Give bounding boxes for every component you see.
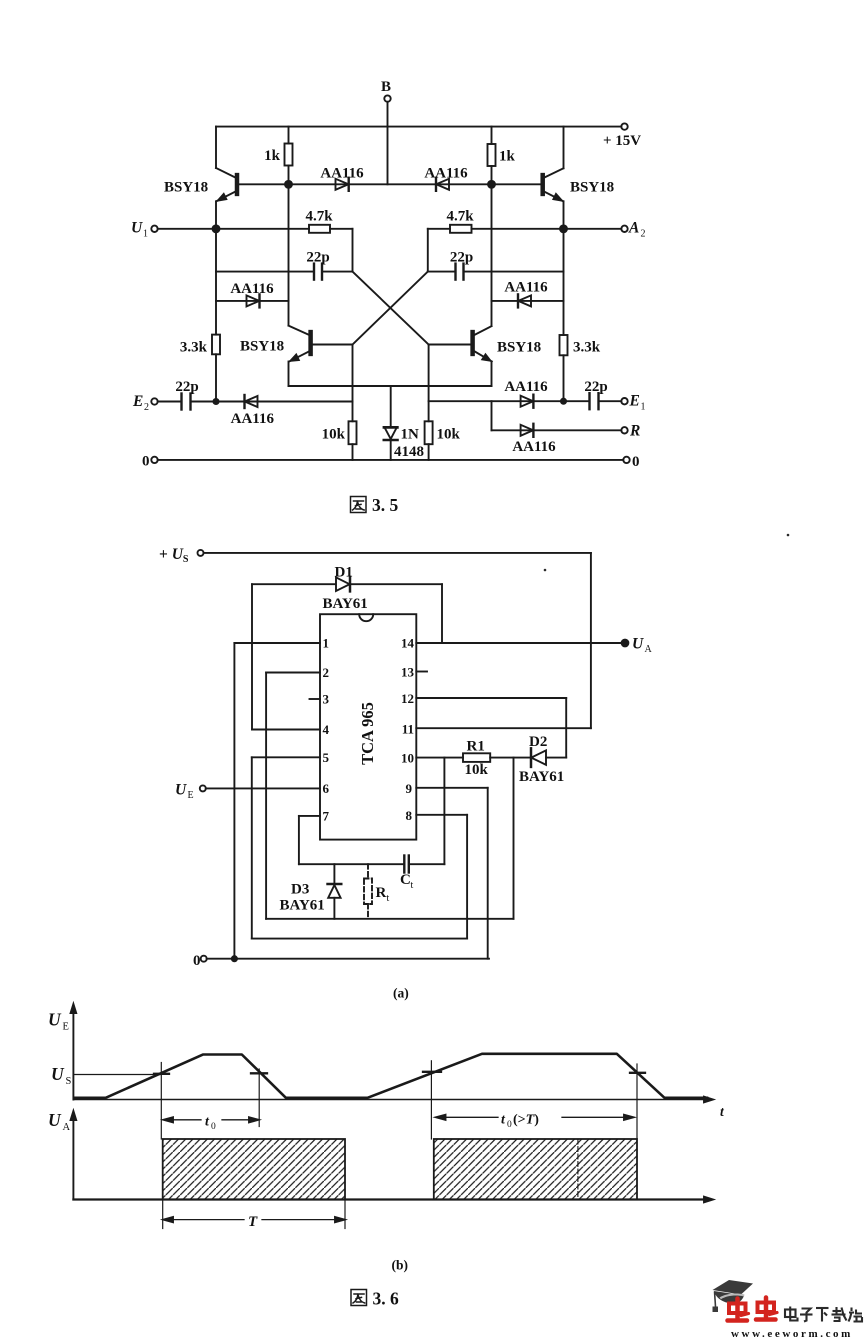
capacitor Ct <box>400 856 444 892</box>
resistor 1k left <box>264 127 292 185</box>
wire cross-coupling diagonal right-to-left <box>353 272 428 345</box>
logo text 电子下载站 <box>785 1307 862 1322</box>
axis t horizontal <box>73 1097 725 1119</box>
svg-text:BSY18: BSY18 <box>164 180 208 196</box>
svg-text:+ 15V: + 15V <box>603 133 641 149</box>
resistor 4.7k right <box>428 209 622 233</box>
svg-text:3. 6: 3. 6 <box>373 1289 400 1309</box>
svg-text:AA116: AA116 <box>320 166 364 182</box>
电 <box>785 1310 796 1318</box>
svg-text:C: C <box>400 872 411 888</box>
wire pin13 stub <box>416 671 427 673</box>
wire pin7 drop <box>298 816 300 864</box>
svg-text:U: U <box>48 1110 62 1130</box>
svg-text:U: U <box>131 220 143 237</box>
svg-text:E: E <box>132 393 143 410</box>
svg-text:6: 6 <box>323 781 330 796</box>
diode 1N4148 <box>384 386 424 460</box>
svg-text:0: 0 <box>211 1122 216 1132</box>
svg-text:0: 0 <box>142 454 150 470</box>
svg-text:22p: 22p <box>306 250 329 266</box>
extension line 4 <box>636 1064 638 1139</box>
transistor Q2 BSY18 upper-right <box>541 127 614 229</box>
pulse 2 hatched <box>434 1139 637 1200</box>
wire pin5 drop <box>251 757 253 938</box>
wire pin12 row <box>416 697 566 699</box>
svg-text:t: t <box>411 880 414 891</box>
svg-text:9: 9 <box>406 781 413 796</box>
threshold cross mark 1 <box>154 1073 169 1075</box>
pulse 2 T divider <box>577 1139 579 1200</box>
wire pin12 drop to D2 <box>565 698 567 758</box>
svg-text:0: 0 <box>507 1120 512 1130</box>
transistor Q4 BSY18 lower-right <box>429 184 542 386</box>
svg-text:4.7k: 4.7k <box>446 209 474 225</box>
extension line 3 <box>430 1061 432 1139</box>
node 0 right <box>623 454 639 470</box>
axis UA vertical <box>48 1110 76 1200</box>
svg-text:22p: 22p <box>450 250 473 266</box>
wire pin2 drop <box>265 673 267 919</box>
resistor 3.3k left <box>180 229 220 402</box>
diode AA116 E1 <box>504 379 548 408</box>
wire UE row pin6 <box>206 787 320 789</box>
svg-text:t: t <box>501 1113 506 1128</box>
wire corner right feedback <box>427 229 429 272</box>
caption 图 3.5 <box>351 495 399 515</box>
wire emitter rail <box>289 385 492 387</box>
svg-text:AA116: AA116 <box>424 166 468 182</box>
svg-text:S: S <box>66 1076 72 1087</box>
wire pin11 row <box>416 727 591 729</box>
transistor Q3 BSY18 lower-left <box>240 184 353 386</box>
svg-text:AA116: AA116 <box>231 411 275 427</box>
logo graduation cap <box>713 1280 754 1312</box>
axis UE vertical <box>48 1004 76 1100</box>
diode AA116 top-right <box>424 166 468 191</box>
node junction 1k-left bottom <box>285 181 292 188</box>
svg-text:t: t <box>205 1115 210 1130</box>
svg-text:4: 4 <box>323 722 330 737</box>
svg-text:D3: D3 <box>291 882 309 898</box>
logo 虫 first <box>728 1299 749 1321</box>
speck artifacts <box>544 534 790 572</box>
wire corner left feedback <box>352 229 354 272</box>
diode D2 BAY61 <box>519 734 566 785</box>
junction E1-3.3k <box>561 399 566 404</box>
arrow T period <box>163 1201 345 1230</box>
wire +Us row <box>204 552 591 554</box>
label Us level <box>51 1064 161 1087</box>
resistor 1k right <box>488 127 516 185</box>
capacitor 22p left <box>216 250 353 280</box>
threshold cross mark 3 <box>423 1071 441 1073</box>
logo 虫 second <box>756 1298 777 1320</box>
svg-text:1k: 1k <box>264 148 281 164</box>
wire D1 left drop to pin4 <box>251 584 253 729</box>
node E1 <box>621 393 645 413</box>
svg-text:12: 12 <box>401 691 414 706</box>
svg-text:2: 2 <box>323 665 330 680</box>
wire pin2-D3-Rt row <box>266 918 513 920</box>
extension line 1 <box>160 1063 162 1140</box>
svg-text:E: E <box>188 790 194 801</box>
svg-text:R: R <box>376 885 387 901</box>
resistor 10k left <box>322 421 357 460</box>
resistor 10k right <box>425 421 461 460</box>
wire pin5 row <box>252 756 320 758</box>
svg-text:3.3k: 3.3k <box>180 340 208 356</box>
下 <box>816 1307 829 1309</box>
svg-text:BAY61: BAY61 <box>280 898 325 914</box>
svg-text:AA116: AA116 <box>504 280 548 296</box>
IC U1 TCA965 <box>320 614 416 839</box>
svg-text:3. 5: 3. 5 <box>372 495 399 515</box>
threshold cross mark 4 <box>630 1072 645 1074</box>
svg-text:10: 10 <box>401 751 414 766</box>
子 <box>802 1309 811 1322</box>
resistor R1 10k <box>463 739 531 779</box>
wire +Us drop to pin11 <box>590 553 592 728</box>
svg-text:10k: 10k <box>465 762 489 778</box>
svg-text:D1: D1 <box>335 565 353 581</box>
wire base row <box>238 183 542 185</box>
svg-text:t: t <box>720 1104 725 1119</box>
wire E1 row <box>429 400 588 402</box>
node E2 <box>132 393 158 413</box>
diode D1 BAY61 <box>252 565 442 613</box>
wire pin8 drop <box>466 815 468 939</box>
wire pin14 row <box>416 642 621 644</box>
node 0 left <box>142 454 158 470</box>
diode AA116 top-left <box>320 166 364 191</box>
svg-text:10k: 10k <box>322 427 346 443</box>
wire R1-D2 node drop <box>513 758 515 919</box>
svg-text:14: 14 <box>401 636 415 651</box>
wire cross-coupling diagonal left-to-right <box>353 272 429 345</box>
extension line 2 <box>258 1069 260 1127</box>
wire pin3 stub <box>310 698 321 700</box>
wire B vertical <box>387 102 389 185</box>
svg-text:1: 1 <box>323 636 330 651</box>
svg-text:A: A <box>628 220 639 237</box>
wire R row <box>492 429 622 431</box>
svg-text:22p: 22p <box>584 379 607 395</box>
wire +15V top bus <box>216 126 621 128</box>
svg-text:4148: 4148 <box>394 444 424 460</box>
svg-text:E: E <box>629 393 640 410</box>
svg-text:BSY18: BSY18 <box>570 180 614 196</box>
pulse 1 hatched <box>163 1139 345 1200</box>
svg-text:0: 0 <box>632 454 640 470</box>
载 <box>833 1310 842 1312</box>
diode AA116 mid-right <box>492 280 564 308</box>
capacitor 22p E2 <box>158 379 199 410</box>
svg-text:1k: 1k <box>499 149 516 165</box>
svg-text:(a): (a) <box>393 986 409 1001</box>
wire R drop <box>491 401 493 430</box>
wire left base drop <box>352 345 354 422</box>
node UE <box>175 782 206 802</box>
svg-text:U: U <box>48 1010 62 1030</box>
svg-text:A: A <box>645 644 653 655</box>
svg-text:TCA 965: TCA 965 <box>358 702 377 765</box>
junction E2-3.3k <box>213 399 218 404</box>
resistor 3.3k right <box>560 229 601 401</box>
svg-text:2: 2 <box>641 229 646 240</box>
wire 0 rail <box>158 459 624 461</box>
svg-text:A: A <box>63 1122 71 1133</box>
node 0 fig-a <box>193 953 207 969</box>
wire pin9 row <box>416 787 487 789</box>
waveform UE trace <box>75 1054 707 1098</box>
capacitor 22p right <box>428 250 564 280</box>
svg-text:8: 8 <box>406 808 413 823</box>
diode AA116 mid-left <box>216 281 289 307</box>
wire right base drop <box>428 345 430 422</box>
node junction U1-emitter <box>213 225 220 232</box>
svg-text:T: T <box>248 1214 258 1230</box>
wire U1 row <box>158 228 309 230</box>
svg-text:0: 0 <box>193 953 201 969</box>
wire pin1 row <box>234 642 320 644</box>
diode AA116 E2 <box>192 395 353 427</box>
svg-text:1N: 1N <box>401 427 420 443</box>
svg-text:E: E <box>63 1022 69 1033</box>
svg-text:D2: D2 <box>529 734 547 750</box>
arrow t0 first <box>164 1115 259 1133</box>
svg-text:AA116: AA116 <box>230 281 274 297</box>
wire pin10 row <box>416 757 463 759</box>
svg-text:11: 11 <box>402 722 414 737</box>
svg-text:3.3k: 3.3k <box>573 340 601 356</box>
svg-text:13: 13 <box>401 665 415 680</box>
svg-text:+ US: + US <box>159 546 189 565</box>
transistor Q1 BSY18 upper-left <box>164 127 238 229</box>
label Rt <box>376 885 390 904</box>
threshold cross mark 2 <box>251 1072 267 1074</box>
svg-text:t: t <box>387 893 390 904</box>
caption 图 3.6 <box>351 1289 399 1309</box>
svg-text:2: 2 <box>144 402 149 413</box>
svg-text:BAY61: BAY61 <box>323 596 368 612</box>
diode D3 BAY61 <box>280 864 342 919</box>
svg-text:BSY18: BSY18 <box>240 339 284 355</box>
node UA <box>622 636 653 656</box>
wire pin7 row <box>299 815 320 817</box>
axis UA baseline <box>73 1197 713 1203</box>
resistor 4.7k left <box>305 209 352 233</box>
svg-text:22p: 22p <box>175 379 198 395</box>
diode AA116 R <box>512 424 556 455</box>
wire pin4 row <box>252 729 320 731</box>
wire Ct row <box>299 863 403 865</box>
svg-text:3: 3 <box>323 692 330 707</box>
svg-text:R1: R1 <box>467 739 485 755</box>
svg-text:4.7k: 4.7k <box>305 209 333 225</box>
svg-text:BAY61: BAY61 <box>519 769 564 785</box>
svg-text:U: U <box>175 782 187 799</box>
node +15V <box>603 123 641 149</box>
站 <box>849 1308 863 1322</box>
svg-text:(b): (b) <box>392 1258 409 1273</box>
wire Ct riser to pin10 <box>443 758 445 865</box>
svg-text:10k: 10k <box>437 427 461 443</box>
svg-text:1: 1 <box>143 229 148 240</box>
svg-text:U: U <box>632 636 644 653</box>
resistor Rt dashed <box>364 864 372 919</box>
svg-text:BSY18: BSY18 <box>497 340 541 356</box>
wire 0 rail fig-a <box>207 958 489 960</box>
svg-text:1: 1 <box>641 402 646 413</box>
node R <box>621 423 640 440</box>
node A2 <box>621 220 645 240</box>
wire pin2 row <box>266 672 320 674</box>
wire pin8 row <box>416 814 467 816</box>
svg-text:R: R <box>629 423 640 440</box>
pin number labels <box>323 636 415 824</box>
svg-text:AA116: AA116 <box>512 439 556 455</box>
node junction A2-emitter <box>560 225 567 232</box>
svg-text:www.eeworm.com: www.eeworm.com <box>731 1328 853 1338</box>
svg-text:U: U <box>51 1064 65 1084</box>
svg-text:(>T): (>T) <box>513 1113 539 1128</box>
node +Us <box>159 546 204 565</box>
wire pin9 drop to 0 <box>487 788 489 959</box>
svg-text:B: B <box>381 79 391 95</box>
svg-text:5: 5 <box>323 750 330 765</box>
node junction 1k-right bottom <box>488 181 495 188</box>
node B <box>381 79 391 102</box>
wire pin1 drop to 0 <box>233 643 235 959</box>
node U1 <box>131 220 158 240</box>
junction pin1-0 <box>232 956 237 961</box>
capacitor 22p E1 <box>584 379 621 409</box>
arrow t0 greater than T <box>436 1113 634 1131</box>
wire D1 right drop to pin14 <box>441 584 443 643</box>
wire pin5-pin8 bottom row <box>252 938 467 940</box>
svg-text:7: 7 <box>323 809 330 824</box>
svg-text:AA116: AA116 <box>504 379 548 395</box>
